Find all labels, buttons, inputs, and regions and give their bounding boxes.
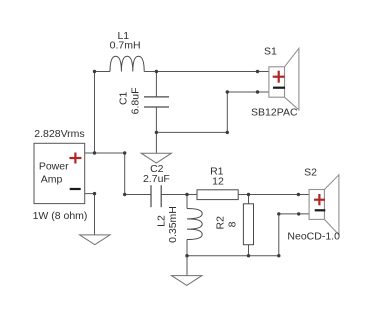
svg-text:S1: S1	[264, 45, 277, 57]
svg-text:2.828Vrms: 2.828Vrms	[34, 128, 84, 140]
speaker S2	[309, 175, 339, 235]
svg-text:NeoCD-1.0: NeoCD-1.0	[287, 231, 340, 243]
svg-text:2.7uF: 2.7uF	[143, 173, 170, 185]
node junction jog corner bottom	[123, 193, 126, 196]
node junction amp+ riser / top rail	[93, 70, 96, 73]
node junction S1 minus corner bottom	[226, 131, 229, 134]
node junction amp + output	[93, 151, 96, 154]
svg-text:0.35mH: 0.35mH	[167, 206, 179, 243]
capacitor C1	[144, 97, 169, 107]
wire jog vertical down to low-pass row	[124, 153, 126, 195]
S1 minus terminal	[273, 87, 285, 89]
inductor L1	[110, 56, 144, 71]
wire S2 minus drop to rail	[278, 214, 280, 256]
wire C1 node to ground	[155, 132, 157, 153]
wire bottom rail to ground	[186, 256, 188, 276]
node junction R2 bottom rail	[247, 254, 250, 257]
wire S2 minus horizontal into pin	[279, 213, 309, 215]
ground (amp)	[80, 235, 110, 245]
inductor L2	[187, 209, 202, 240]
node S1 pin - dot	[256, 90, 259, 93]
amp minus terminal	[70, 188, 81, 190]
resistor R1	[197, 190, 238, 200]
svg-text:Amp: Amp	[41, 174, 63, 186]
svg-text:C1: C1	[118, 91, 130, 105]
amp plus terminal	[69, 153, 81, 164]
wire C2 to R1	[161, 194, 197, 196]
svg-text:SB12PAC: SB12PAC	[251, 107, 298, 119]
svg-text:1W (8 ohm): 1W (8 ohm)	[33, 210, 88, 222]
ground (C1)	[141, 153, 171, 163]
wire	[85, 72, 309, 276]
S1 plus terminal	[273, 71, 285, 83]
resistor R2	[243, 204, 253, 245]
S2 minus terminal	[315, 209, 326, 211]
wire C1 top lead	[155, 72, 157, 97]
svg-text:0.7mH: 0.7mH	[110, 40, 141, 52]
wire C1 bottom lead to node	[155, 107, 157, 132]
node junction C2/L2 node	[185, 193, 188, 196]
speaker S1	[269, 48, 299, 110]
node junction R1/R2 node	[247, 193, 250, 196]
wire R2 bottom lead	[248, 245, 250, 256]
node junction C1 bottom node	[155, 131, 158, 134]
node S2 pin + dot	[297, 193, 300, 196]
node junction amp - output	[93, 192, 96, 195]
wire L2 bottom lead	[186, 240, 188, 256]
node junction L2 bottom rail	[185, 254, 188, 257]
wire C1 node horizontal to S1 minus branch	[156, 131, 227, 133]
svg-text:L2: L2	[156, 215, 168, 227]
svg-text:8: 8	[226, 221, 238, 227]
wire R2 top lead	[248, 195, 250, 204]
svg-text:S2: S2	[304, 166, 317, 178]
wire amp minus lead	[85, 193, 95, 195]
node junction rail / S2 drop	[277, 254, 280, 257]
svg-text:6.8uF: 6.8uF	[130, 87, 142, 114]
node S1 pin + dot	[256, 70, 259, 73]
ground (bottom rail)	[172, 276, 202, 286]
wire amp plus lead	[85, 152, 125, 154]
node junction S1 minus corner top	[226, 90, 229, 93]
node junction S2 minus corner	[277, 212, 280, 215]
svg-text:R2: R2	[215, 216, 227, 230]
svg-text:12: 12	[212, 176, 224, 188]
svg-text:Power: Power	[39, 161, 69, 173]
S2 plus terminal	[314, 194, 325, 205]
wire R1 to S2 plus pin	[238, 194, 309, 196]
wire amp minus down to ground	[94, 194, 96, 235]
wire left vertical amp plus to top rail	[94, 72, 96, 154]
power amp box	[34, 143, 85, 203]
wire L2 top lead	[186, 195, 188, 209]
node junction jog corner top	[123, 151, 126, 154]
node S2 pin - dot	[297, 212, 300, 215]
capacitor C2	[151, 185, 161, 207]
wire top rail from amp node to L1	[95, 71, 111, 73]
wire S1 minus vertical riser	[226, 92, 228, 132]
wire to C2 left plate	[125, 194, 151, 196]
wire top rail from L1 to S1 plus pin	[144, 71, 269, 73]
wire S1 minus horizontal into pin	[227, 91, 269, 93]
node junction top rail / C1	[155, 70, 158, 73]
wire bottom rail	[187, 255, 279, 257]
